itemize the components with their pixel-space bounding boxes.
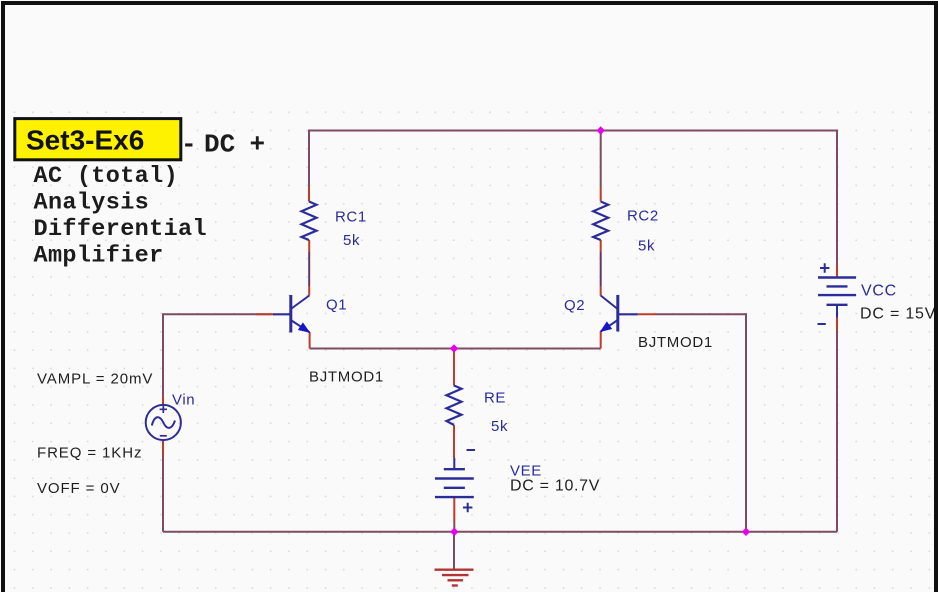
wire RC1 top drop: [308, 130, 310, 188]
svg-text:RC1: RC1: [335, 209, 367, 226]
pin Q2 base lead: [638, 313, 656, 315]
wire emitter bus: [310, 348, 601, 350]
svg-text:Amplifier: Amplifier: [34, 242, 164, 269]
svg-text:AC (total): AC (total): [34, 163, 179, 190]
svg-text:Analysis: Analysis: [34, 189, 150, 216]
svg-text:FREQ = 1KHz: FREQ = 1KHz: [37, 445, 142, 462]
wire Vin bottom vertical: [162, 456, 164, 532]
wire VEE bottom: [453, 522, 455, 532]
pin RC1 bottom / Q1 collector lead: [308, 240, 310, 296]
wire RC2 top drop: [600, 131, 602, 188]
svg-text:BJTMOD1: BJTMOD1: [309, 369, 384, 386]
pin RC2 bottom / Q2 collector lead: [600, 240, 602, 296]
wire Vin to Q1 base: [163, 313, 272, 315]
annotation - DC +: [181, 130, 265, 160]
svg-text:RE: RE: [484, 390, 506, 407]
pin Vin top lead: [162, 397, 164, 405]
svg-text:Differential: Differential: [34, 216, 207, 243]
source VCC battery: [818, 263, 857, 324]
svg-text:VCC: VCC: [861, 283, 897, 300]
pin RC1 top lead: [308, 187, 310, 202]
svg-text:VOFF = 0V: VOFF = 0V: [37, 480, 121, 497]
ground: [435, 570, 474, 586]
pin Q1 emitter lead: [309, 332, 311, 349]
svg-text:5k: 5k: [343, 232, 360, 249]
svg-text:+: +: [250, 130, 266, 160]
wire ground stem: [453, 533, 455, 569]
pin VEE bottom lead: [453, 497, 455, 522]
source VEE battery: [435, 450, 475, 512]
svg-text:Set3-Ex6: Set3-Ex6: [26, 125, 144, 156]
svg-text:DC = 10.7V: DC = 10.7V: [510, 478, 600, 495]
wire Vin vertical: [162, 313, 164, 397]
junction emitter bus / RE: [450, 344, 458, 352]
svg-text:BJTMOD1: BJTMOD1: [638, 334, 713, 351]
svg-text:DC = 15V: DC = 15V: [860, 306, 936, 323]
junction RC2 top: [597, 126, 605, 134]
pin Vin bottom lead: [162, 440, 164, 456]
svg-text:-: -: [181, 130, 197, 160]
pin Q2 emitter lead: [600, 332, 602, 349]
resistor RC2: [593, 202, 608, 241]
resistor RE: [447, 386, 462, 426]
title box Set3-Ex6: [15, 119, 181, 160]
junction bottom VEE/ground: [450, 528, 458, 536]
wire VCC top drop: [836, 130, 838, 267]
wire VCC bottom: [836, 330, 838, 532]
transistor Q1: [273, 295, 310, 333]
svg-text:5k: 5k: [491, 418, 508, 435]
svg-text:VAMPL = 20mV: VAMPL = 20mV: [37, 371, 153, 388]
svg-text:Vin: Vin: [172, 392, 195, 409]
junction bottom Q2 branch: [742, 528, 750, 536]
wire Q2 base horizontal: [656, 313, 746, 315]
svg-text:Q1: Q1: [326, 297, 347, 314]
transistor Q2: [601, 295, 638, 332]
wire top bus: [309, 130, 837, 132]
svg-text:5k: 5k: [638, 238, 655, 255]
annotation AC (total) Analysis Differential Amplifier: [34, 163, 207, 269]
pin RE top lead: [453, 352, 455, 386]
resistor RC1: [302, 202, 317, 241]
wire Q2 base vertical drop: [745, 313, 747, 532]
svg-text:Q2: Q2: [564, 297, 585, 314]
pin Q1 base lead: [256, 313, 274, 315]
wire bottom bus: [163, 531, 837, 533]
pin VCC top lead: [836, 266, 838, 278]
svg-text:RC2: RC2: [627, 208, 659, 225]
pin VCC bottom lead: [836, 318, 838, 331]
pin RC2 top lead: [600, 187, 602, 202]
source Vin sine: [146, 405, 181, 440]
svg-text:DC: DC: [204, 130, 235, 160]
pin RE bottom lead: [453, 425, 455, 458]
